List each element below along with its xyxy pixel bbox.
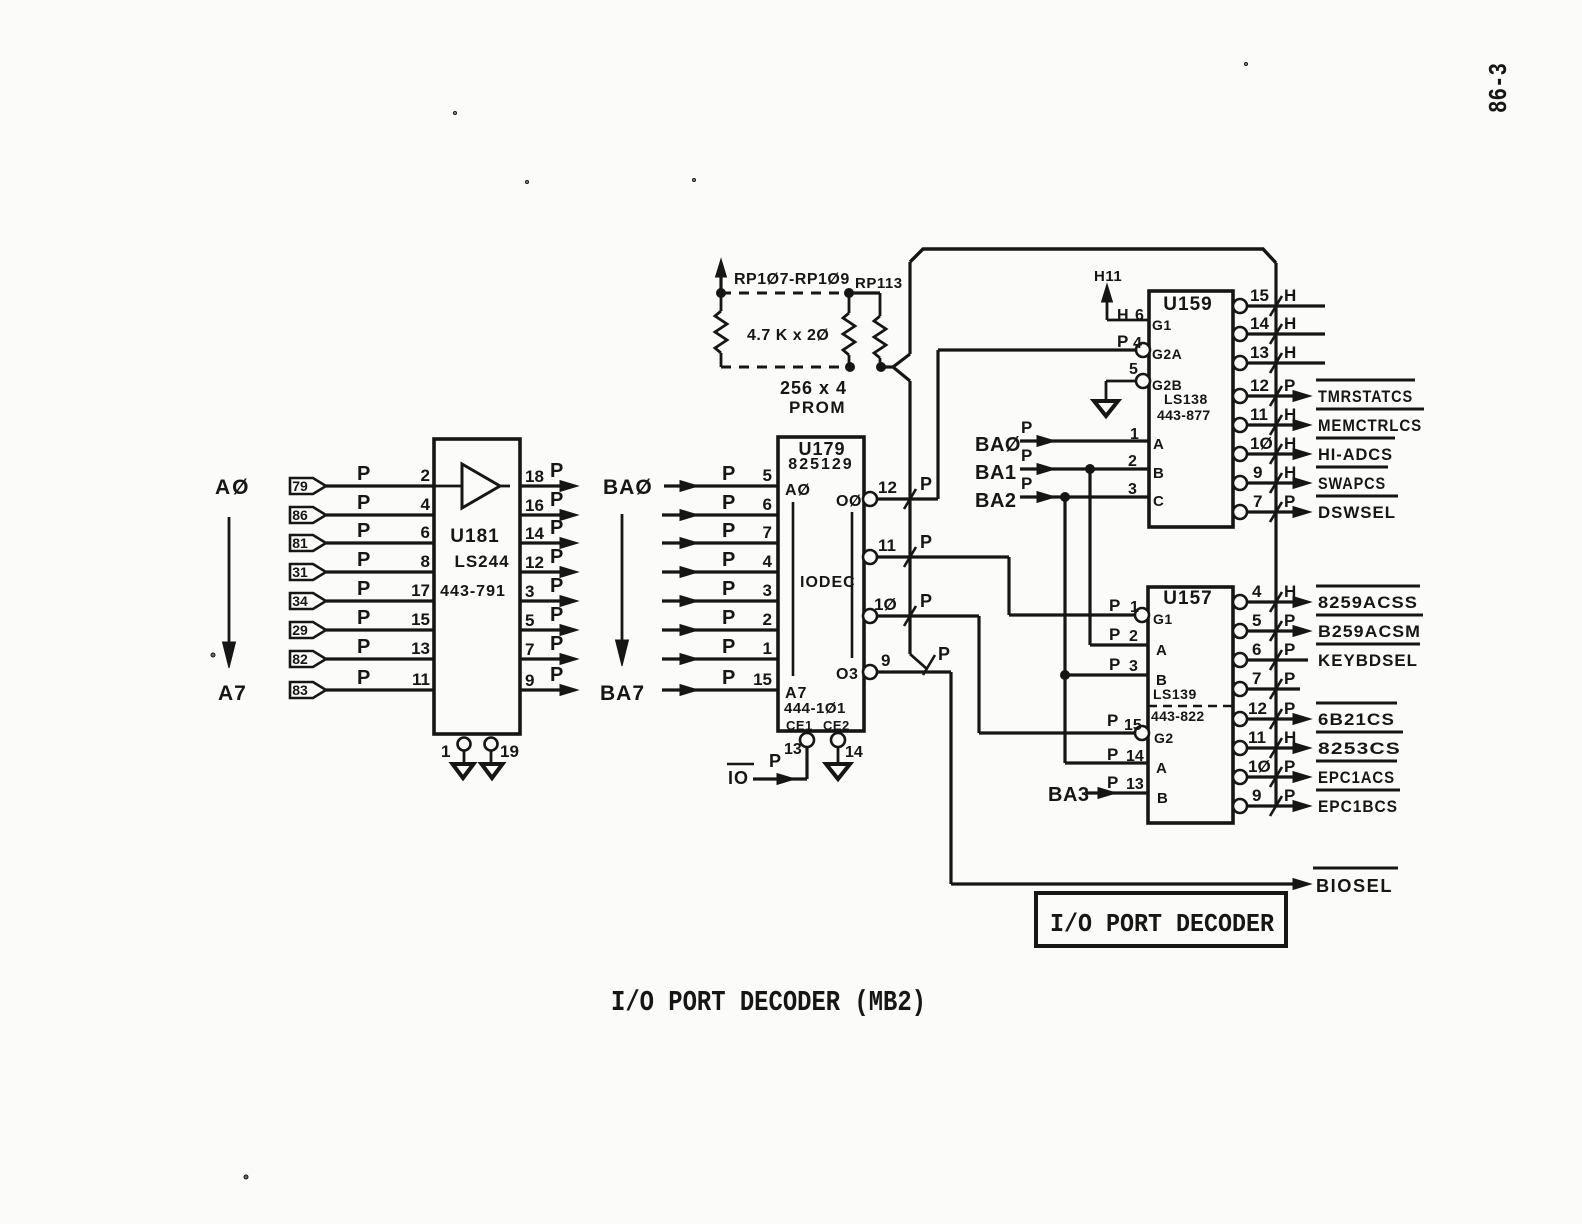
pin 12 U157 output [1233, 712, 1311, 726]
wire pull-up bus left vertical [908, 262, 911, 354]
label P (U157 pin14) [1107, 745, 1118, 764]
label pin 5 (U157 out) [1252, 611, 1261, 630]
svg-text:17: 17 [411, 581, 430, 600]
label P (U157 pin1) [1109, 596, 1120, 615]
pin 14 U159 output [1233, 327, 1325, 341]
svg-text:1: 1 [441, 742, 450, 761]
svg-text:5: 5 [525, 611, 534, 630]
label pin 11 (U157 out) [1248, 728, 1266, 747]
svg-text:1: 1 [1130, 426, 1139, 443]
wire pull-up bus top [910, 249, 1276, 263]
label H (U159 pin 1Ø) [1284, 434, 1296, 453]
label pin 14 U181 [525, 524, 544, 543]
svg-text:P: P [1284, 376, 1295, 395]
svg-text:825129: 825129 [788, 456, 853, 473]
pin 5 G2B bubble [1136, 374, 1150, 388]
label P (U181 output 3) [550, 546, 563, 568]
label G2 (U157) [1154, 730, 1174, 746]
label pin 8 U181 [421, 552, 430, 571]
svg-text:BA1: BA1 [975, 462, 1017, 484]
pin 11 U157 output [1233, 741, 1311, 755]
junction slash O3 pull-up [923, 655, 935, 675]
pin 5 U157 output [1233, 624, 1311, 638]
wire A0-A7 inner line (U179) [792, 502, 795, 676]
pin 13 U159 output [1233, 356, 1325, 370]
svg-text:C: C [1153, 493, 1164, 510]
node BA1 junction [1086, 465, 1095, 474]
junction slash U159 pin 7 pull-up [1270, 502, 1282, 522]
svg-text:LS139: LS139 [1153, 686, 1197, 702]
label P (pin10) [920, 591, 932, 611]
label CE2 [823, 718, 850, 733]
label pin 3 (U159) [1128, 481, 1137, 498]
svg-text:3: 3 [1128, 481, 1137, 498]
svg-text:7: 7 [763, 523, 772, 542]
label P (O0) [920, 474, 932, 494]
svg-text:13: 13 [1126, 776, 1144, 793]
label P (U179 input 6) [722, 636, 735, 658]
svg-text:P: P [550, 517, 563, 539]
junction slash U159 pin 1Ø pull-up [1270, 444, 1282, 464]
label P (O3) [938, 644, 950, 664]
svg-text:6: 6 [1252, 640, 1261, 659]
svg-text:2: 2 [1129, 628, 1138, 645]
pin 15 G2 bubble (U157) [1135, 726, 1149, 740]
label P (U181 input 2) [357, 520, 370, 542]
svg-text:2: 2 [763, 610, 772, 629]
label P (U181 input 0) [357, 463, 370, 485]
wire BA1 to U159 B pin2 [1020, 464, 1149, 475]
svg-text:P: P [722, 549, 735, 571]
node connector tag 86 [290, 507, 326, 523]
pin 1 U181 (enable, bubble) [441, 738, 471, 762]
label P (U179 input 7) [722, 667, 735, 689]
svg-text:12: 12 [1250, 376, 1269, 395]
label G2B (U159) [1152, 377, 1182, 393]
svg-text:P: P [550, 460, 563, 482]
label box I/O PORT DECODER [1036, 893, 1286, 946]
svg-text:3: 3 [1129, 658, 1138, 675]
label pin 4 U181 [421, 495, 431, 514]
svg-text:6: 6 [421, 523, 430, 542]
junction slash pin10 pull-up [904, 606, 916, 626]
label pin 2 (U159) [1128, 453, 1137, 470]
label pin 4 (U159) [1133, 335, 1142, 352]
svg-text:14: 14 [845, 744, 863, 761]
label P (BA1) [1021, 446, 1032, 465]
svg-text:P: P [1109, 625, 1120, 644]
svg-text:16: 16 [525, 496, 544, 515]
svg-text:P: P [722, 667, 735, 689]
label H (G1) [1117, 307, 1129, 324]
label pin 6 U181 [421, 523, 430, 542]
net MEMCTRLCS label [1316, 409, 1424, 435]
svg-text:7: 7 [1253, 492, 1262, 511]
label P (U157 pin15) [1107, 711, 1118, 730]
svg-text:B: B [1157, 790, 1168, 807]
svg-text:BA2: BA2 [975, 490, 1017, 512]
label pin 15 U181 [411, 610, 430, 629]
label U181 [450, 526, 499, 547]
svg-text:15: 15 [1124, 717, 1142, 734]
label pin 14 (U159 out) [1250, 314, 1269, 333]
svg-text:H: H [1284, 582, 1296, 601]
label A0 (U179) [785, 482, 811, 499]
label P (G2A) [1117, 332, 1128, 351]
label H (U159 pin 11) [1284, 405, 1296, 424]
svg-text:H: H [1284, 728, 1296, 747]
page number 3-68 [1484, 63, 1514, 113]
label P (U181 input 4) [357, 578, 370, 600]
label P (U181 output 2) [550, 517, 563, 539]
label pin 13 U181 [411, 639, 430, 658]
svg-text:P: P [920, 532, 932, 552]
node RP113 bottom junction a [846, 363, 855, 372]
junction slash U157 pin 1Ø pull-up [1270, 767, 1282, 787]
svg-text:BA7: BA7 [600, 682, 645, 705]
wire U181 output pin 3 [520, 596, 578, 607]
label pin 5 U179 [763, 466, 772, 485]
wire U181 output pin 16 [520, 510, 578, 521]
label IODEC [800, 574, 856, 591]
node A7 label [218, 682, 247, 705]
svg-text:9: 9 [525, 671, 534, 690]
svg-text:P: P [357, 520, 370, 542]
wire A6 tag to U181 pin 13 [326, 657, 434, 660]
label P (U179 input 4) [722, 578, 735, 600]
svg-text:12: 12 [878, 478, 897, 497]
svg-text:U157: U157 [1163, 588, 1212, 609]
svg-text:TMRSTATCS: TMRSTATCS [1318, 387, 1413, 406]
svg-text:P: P [1021, 446, 1032, 465]
label P (U181 input 3) [357, 549, 370, 571]
pin 10 bubble [863, 609, 877, 623]
node BA2 input label [975, 490, 1017, 512]
svg-text:AØ: AØ [785, 482, 811, 499]
decoder U159 box [1149, 291, 1233, 527]
pin 7 U159 output [1233, 505, 1311, 519]
junction slash O0 pull-up [904, 489, 916, 509]
label P (U181 input 1) [357, 492, 370, 514]
svg-text:PROM: PROM [789, 398, 846, 417]
svg-text:A: A [1156, 642, 1167, 659]
svg-text:P: P [1021, 474, 1032, 493]
net EPC1BCS label [1316, 790, 1400, 816]
wire BA2 to U179 pin 7 [662, 538, 778, 549]
svg-text:31: 31 [292, 564, 308, 580]
node BA2 junction [1061, 493, 1070, 502]
label 825129 [788, 456, 853, 473]
svg-text:8253CS: 8253CS [1318, 739, 1401, 758]
pin 1Ø U157 output [1233, 770, 1311, 784]
label LS244 [454, 552, 509, 571]
svg-text:86-3: 86-3 [1484, 63, 1514, 113]
svg-text:12: 12 [525, 553, 544, 572]
svg-text:P: P [1109, 655, 1120, 674]
label P (U157 pin13) [1107, 773, 1118, 792]
svg-text:14: 14 [1126, 748, 1144, 765]
wire BA1 down to U157 A pin2 [1090, 469, 1148, 645]
label U157 [1163, 588, 1212, 609]
pin 12 U159 output [1233, 389, 1311, 403]
label P (U181 output 5) [550, 604, 563, 626]
speck [454, 112, 457, 115]
label G2A (U159) [1152, 346, 1182, 362]
svg-text:P: P [1284, 757, 1295, 776]
svg-text:P: P [357, 492, 370, 514]
svg-text:RP1Ø7-RP1Ø9: RP1Ø7-RP1Ø9 [734, 271, 850, 288]
pin 6 U157 output [1233, 653, 1308, 667]
wire pin1 to ground [463, 750, 466, 764]
svg-text:15: 15 [411, 610, 430, 629]
wire BA7 to U179 pin 15 [662, 685, 778, 696]
svg-text:AØ: AØ [215, 476, 251, 499]
label pin 1Ø (U157 out) [1248, 757, 1271, 776]
wire RP113 top [849, 293, 880, 316]
label P (U179 input 3) [722, 549, 735, 571]
svg-text:81: 81 [292, 535, 308, 551]
svg-text:1: 1 [1130, 599, 1139, 616]
svg-text:15: 15 [753, 670, 772, 689]
speck [693, 179, 696, 182]
label pin 9 (U179) [881, 651, 890, 670]
junction slash U157 pin 7 pull-up [1270, 679, 1282, 699]
resistor RP107 (4.7K pull-up) [715, 293, 727, 367]
label pin 6 U179 [763, 495, 772, 514]
wire BA3 to U157 B pin13 [1086, 788, 1148, 799]
junction slash U159 pin 11 pull-up [1270, 415, 1282, 435]
label pin 1Ø (U159 out) [1250, 434, 1273, 453]
svg-text:P: P [357, 636, 370, 658]
pin 4 U157 output [1233, 595, 1311, 609]
svg-text:P: P [1284, 611, 1295, 630]
label pin 9 (U159 out) [1253, 463, 1262, 482]
svg-text:H: H [1284, 405, 1296, 424]
svg-text:6: 6 [1135, 307, 1144, 324]
wire BA0 to U179 pin 5 [664, 481, 778, 492]
svg-text:P: P [1284, 786, 1295, 805]
svg-text:LS244: LS244 [454, 552, 509, 571]
svg-text:29: 29 [292, 622, 308, 638]
label B (U157 lower) [1157, 790, 1168, 807]
pin 12 O0 bubble [863, 492, 877, 506]
svg-text:BAØ: BAØ [603, 476, 653, 499]
wire pin10 to U157 G2 [876, 616, 1136, 733]
svg-text:P: P [550, 664, 563, 686]
svg-text:P: P [550, 575, 563, 597]
label O0 (U179) [836, 493, 862, 510]
label pin 15 U179 [753, 670, 772, 689]
buffer U181 triangle symbol [435, 464, 510, 508]
label P (U181 input 5) [357, 607, 370, 629]
speck [244, 1175, 248, 1179]
label pin 4 U179 [763, 552, 773, 571]
svg-text:P: P [1284, 669, 1295, 688]
svg-text:CE2: CE2 [823, 718, 850, 733]
wire IO to CE1 [753, 746, 807, 785]
wire G2B to ground [1106, 381, 1137, 401]
label RP113 [855, 275, 903, 292]
wire pull-up bus lower vertical [910, 381, 927, 669]
svg-text:SWAPCS: SWAPCS [1318, 474, 1386, 493]
label pin 12 (U159 out) [1250, 376, 1269, 395]
label pin 18 U181 [525, 467, 544, 486]
ground (U159 G2B) [1094, 401, 1118, 416]
net 6B21CS label [1316, 703, 1397, 729]
label pin 2 (U157) [1129, 628, 1138, 645]
svg-text:9: 9 [1252, 786, 1261, 805]
svg-text:BAØ: BAØ [975, 434, 1021, 456]
node BA0 label [603, 476, 653, 499]
node BA3 input label [1048, 784, 1090, 806]
label pin 3 U179 [763, 581, 772, 600]
svg-text:B: B [1153, 465, 1164, 482]
svg-text:1Ø: 1Ø [1248, 757, 1271, 776]
junction slash U159 pin 15 pull-up [1270, 296, 1282, 316]
wire O0-O3 inner line (U179) [851, 512, 854, 658]
svg-text:P: P [722, 636, 735, 658]
svg-text:18: 18 [525, 467, 544, 486]
label P (U181 output 0) [550, 460, 563, 482]
label RP107-RP109 [734, 271, 850, 288]
svg-text:H: H [1117, 307, 1129, 324]
wire BA0 to U159 A pin1 [1020, 436, 1149, 447]
svg-text:14: 14 [1250, 314, 1269, 333]
svg-text:OØ: OØ [836, 493, 862, 510]
svg-text:H: H [1284, 463, 1296, 482]
wire A1 tag to U181 pin 4 [326, 513, 434, 516]
svg-text:13: 13 [1250, 343, 1269, 362]
svg-text:P: P [357, 607, 370, 629]
svg-text:P: P [1107, 773, 1118, 792]
buffer U181 box [434, 439, 520, 734]
label 443-822 [1151, 708, 1204, 724]
net TMRSTATCS label [1316, 380, 1415, 406]
svg-text:7: 7 [1252, 669, 1261, 688]
wire pull-up bus right vertical [1274, 263, 1277, 806]
wire dashed rail bottom [721, 366, 840, 369]
label pin 11 U181 [412, 670, 430, 689]
speck [1245, 63, 1248, 66]
svg-text:P: P [920, 474, 932, 494]
pin 7 U157 output [1233, 682, 1300, 696]
svg-text:I/O PORT DECODER (MB2): I/O PORT DECODER (MB2) [611, 986, 926, 1019]
node connector tag 83 [290, 682, 326, 698]
junction slash U157 pin 9 pull-up [1270, 796, 1282, 816]
label P (U181 output 4) [550, 575, 563, 597]
junction slash U157 pin 12 pull-up [1270, 709, 1282, 729]
svg-text:443-791: 443-791 [440, 583, 506, 600]
label P (U159 pin 7) [1284, 492, 1295, 511]
svg-text:RP113: RP113 [855, 275, 903, 292]
svg-text:B259ACSM: B259ACSM [1318, 622, 1421, 641]
label P (U157 pin 6) [1284, 640, 1295, 659]
junction slash U159 pin 13 pull-up [1270, 353, 1282, 373]
label C (U159) [1153, 493, 1164, 510]
svg-text:11: 11 [1250, 405, 1268, 424]
svg-text:P: P [722, 607, 735, 629]
label pin 4 (U157 out) [1252, 582, 1262, 601]
wire U181 output pin 9 [520, 685, 578, 696]
node BA2-U157B junction [1061, 671, 1070, 680]
svg-text:P: P [357, 549, 370, 571]
label pin 2 U179 [763, 610, 772, 629]
label pin 12 (U157 out) [1248, 699, 1267, 718]
label pin 7 (U159 out) [1253, 492, 1262, 511]
label P (U181 output 6) [550, 633, 563, 655]
svg-text:79: 79 [292, 478, 308, 494]
svg-text:444-1Ø1: 444-1Ø1 [784, 700, 846, 717]
label P (U179 input 0) [722, 463, 735, 485]
svg-text:P: P [938, 644, 950, 664]
label H (U159 pin 14) [1284, 314, 1296, 333]
ground (U181 pin 1) [453, 764, 474, 778]
label B (U157 upper) [1156, 672, 1167, 689]
pin 1 G1 bubble (U157) [1135, 608, 1149, 622]
label LS138 [1164, 391, 1208, 407]
svg-text:6: 6 [763, 495, 772, 514]
svg-text:12: 12 [1248, 699, 1267, 718]
label pin 9 U181 [525, 671, 534, 690]
svg-text:9: 9 [1253, 463, 1262, 482]
resistor RP113b [874, 316, 886, 367]
label LS139 [1153, 686, 1197, 702]
svg-text:P: P [920, 591, 932, 611]
svg-text:LS138: LS138 [1164, 391, 1208, 407]
wire BA6 to U179 pin 1 [662, 654, 778, 665]
label pin 17 U181 [411, 581, 430, 600]
svg-text:4: 4 [763, 552, 773, 571]
junction slash U157 pin 5 pull-up [1270, 621, 1282, 641]
junction slash U157 pin 4 pull-up [1270, 592, 1282, 612]
caption I/O PORT DECODER (MB2) [611, 986, 926, 1019]
pin 13 CE1 bubble [784, 733, 814, 758]
net 8253CS label [1316, 732, 1403, 758]
junction slash U159 pin 9 pull-up [1270, 473, 1282, 493]
label U159 [1163, 294, 1212, 315]
svg-text:P: P [550, 604, 563, 626]
label pin 1 (U157) [1130, 599, 1139, 616]
svg-text:5: 5 [1252, 611, 1261, 630]
label PROM [789, 398, 846, 417]
svg-text:H: H [1284, 434, 1296, 453]
label P (U181 input 7) [357, 667, 370, 689]
node connector tag 34 [290, 593, 326, 609]
node A0 label [215, 476, 251, 499]
label P (U181 input 6) [357, 636, 370, 658]
wire BA4 to U179 pin 3 [662, 596, 778, 607]
ground (U179 CE2) [826, 764, 850, 779]
svg-text:P: P [722, 463, 735, 485]
svg-text:9: 9 [881, 651, 890, 670]
node BA7 label [600, 682, 645, 705]
label P (U157 pin 1Ø) [1284, 757, 1295, 776]
label H (U157 pin 4) [1284, 582, 1296, 601]
label P (U159 pin 12) [1284, 376, 1295, 395]
wire U181 output pin 14 [520, 538, 578, 549]
label P (U157 pin3) [1109, 655, 1120, 674]
label U179 [798, 439, 845, 459]
net BIOSEL label [1313, 868, 1398, 896]
pin 9 U159 output [1233, 476, 1311, 490]
svg-text:443-877: 443-877 [1157, 407, 1210, 423]
node rail junction (left) [717, 289, 726, 298]
label P (U157 pin 12) [1284, 699, 1295, 718]
svg-text:P: P [550, 633, 563, 655]
svg-text:MEMCTRLCS: MEMCTRLCS [1318, 416, 1422, 435]
svg-text:A7: A7 [218, 682, 247, 705]
svg-text:H11: H11 [1094, 268, 1122, 285]
